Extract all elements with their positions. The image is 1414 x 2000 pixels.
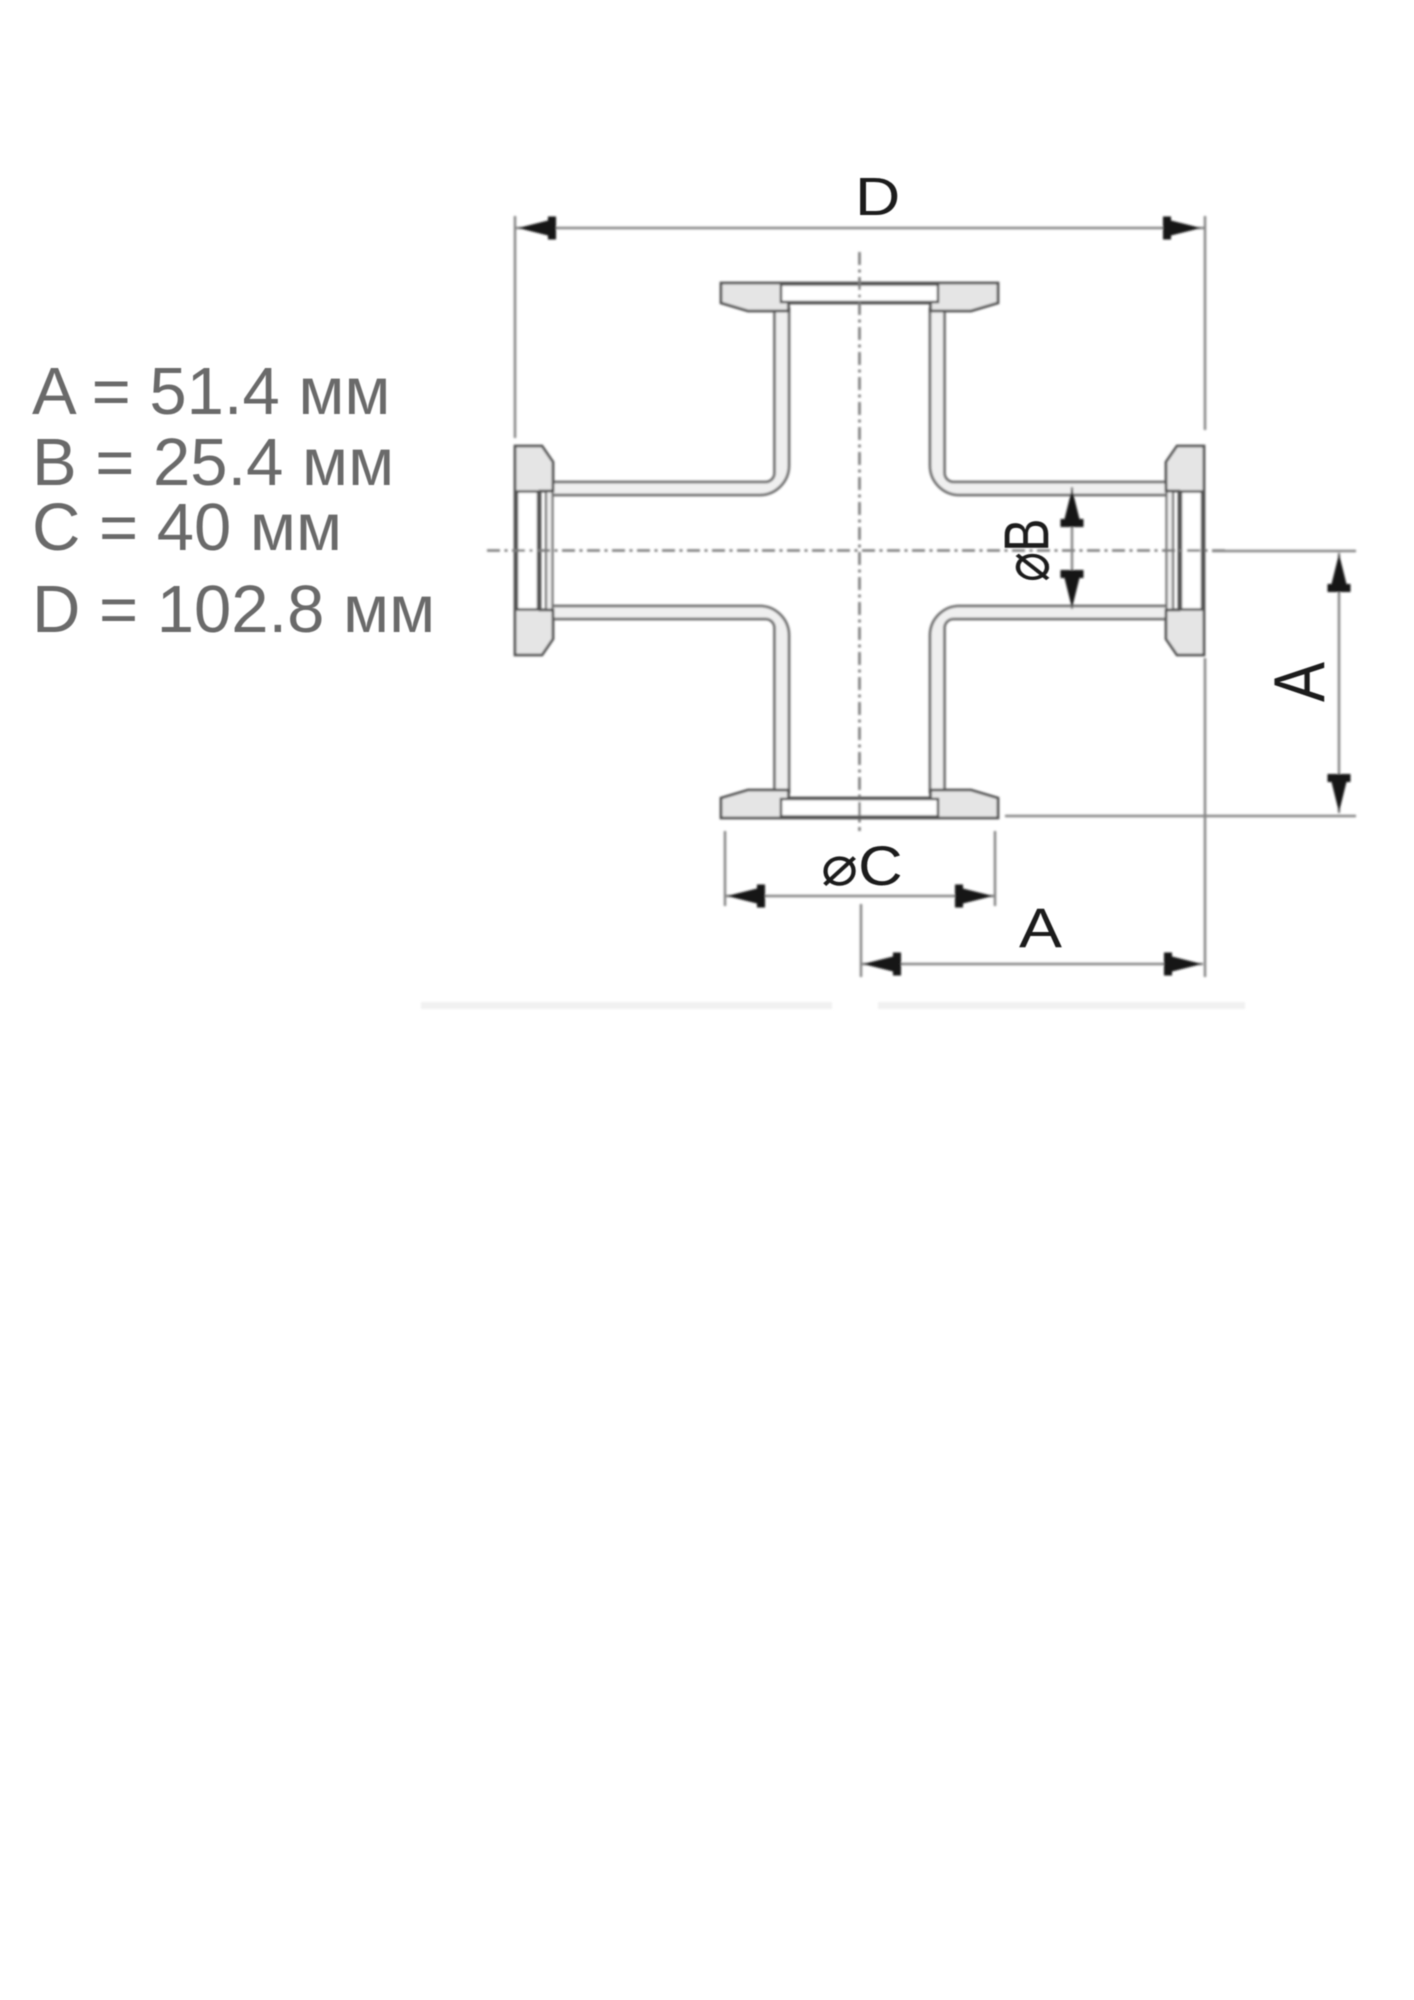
- svg-text:D = 102.8 мм: D = 102.8 мм: [32, 572, 435, 647]
- svg-text:⌀C: ⌀C: [821, 836, 903, 898]
- svg-text:C = 40 мм: C = 40 мм: [32, 490, 342, 565]
- svg-text:D: D: [855, 167, 900, 227]
- svg-text:A = 51.4 мм: A = 51.4 мм: [32, 354, 391, 429]
- svg-text:⌀B: ⌀B: [991, 519, 1062, 582]
- svg-text:B = 25.4 мм: B = 25.4 мм: [32, 425, 394, 500]
- svg-text:A: A: [1019, 896, 1063, 959]
- svg-text:A: A: [1260, 661, 1340, 702]
